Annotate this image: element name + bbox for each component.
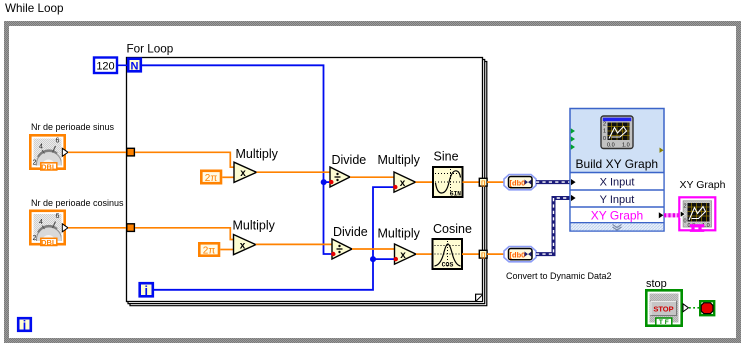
svg-text:Y Input: Y Input (600, 194, 635, 206)
knob control Nr de perioade sinus (DBL) (30, 135, 68, 176)
wire XY graph (magenta) (664, 213, 679, 217)
wire knob sinus to tunnel (orange) (68, 151, 126, 153)
coercion dot Divide1 (329, 180, 333, 184)
loop condition terminal (stop sign) (700, 301, 714, 315)
svg-text:Multiply: Multiply (236, 147, 279, 161)
svg-text:STOP: STOP (653, 304, 673, 313)
label Divide 1 (332, 153, 367, 167)
label Cosine (433, 222, 472, 236)
label Multiply 3 (378, 153, 421, 167)
svg-text:Nr de perioade sinus: Nr de perioade sinus (31, 122, 115, 132)
wire tunnel to converter 1 (orange) (487, 181, 505, 183)
wire iteration i (blue) (154, 187, 394, 290)
svg-text:120: 120 (96, 61, 114, 73)
stop boolean control (646, 290, 688, 326)
svg-text:XY Graph: XY Graph (591, 209, 643, 223)
label Nr de perioade cosinus (31, 198, 124, 208)
label stop (646, 278, 667, 290)
constant 2pi 1 (201, 171, 221, 184)
junction node on i wire (370, 256, 376, 262)
svg-text:2: 2 (684, 204, 687, 210)
svg-text:2: 2 (33, 160, 37, 167)
svg-text:stop: stop (646, 278, 667, 290)
for loop iteration terminal i (140, 283, 153, 298)
multiply function 3 (394, 172, 416, 192)
svg-text:0: 0 (684, 219, 687, 225)
wire Multiply2 to Divide2 (orange) (256, 243, 332, 245)
wire tunnel to Multiply 2 (orange, jog down) (135, 228, 234, 240)
svg-text:Cosine: Cosine (433, 222, 472, 236)
wire Multiply3 to Sine (orange) (416, 181, 433, 183)
svg-text:x: x (400, 250, 406, 261)
svg-text:x: x (240, 168, 246, 179)
knob control Nr de perioade cosinus (DBL) (30, 211, 68, 252)
junction node on N wire (321, 179, 327, 185)
svg-text:X Input: X Input (600, 177, 635, 189)
convert to dynamic data 2 (504, 247, 536, 262)
svg-text:x: x (240, 241, 246, 252)
label Multiply 1 (236, 147, 279, 161)
wire N count (blue) (142, 65, 332, 254)
svg-text:2: 2 (33, 235, 37, 242)
svg-text:6: 6 (56, 138, 60, 145)
coercion dot Multiply4 (394, 257, 398, 261)
svg-text:N: N (131, 60, 139, 72)
for loop dog-ear corner (476, 294, 483, 301)
wire Multiply4 to Cosine (orange) (416, 253, 432, 255)
build XY graph icon (601, 116, 633, 149)
svg-text:0.0: 0.0 (607, 143, 615, 149)
XY graph indicator (679, 197, 715, 232)
for loop border (127, 58, 487, 306)
coercion dot Multiply3 (393, 185, 397, 189)
svg-text:4: 4 (39, 144, 43, 151)
wire 2pi to Multiply 2 (orange) (220, 249, 233, 251)
svg-text:XY Graph: XY Graph (680, 179, 726, 191)
wire 2pi to Multiply 1 (orange) (222, 176, 234, 178)
svg-text:COS: COS (442, 262, 454, 269)
svg-text:4: 4 (39, 219, 43, 226)
svg-text:Divide: Divide (332, 153, 367, 167)
svg-text:[db0: [db0 (510, 251, 526, 260)
svg-text:[]: [] (481, 180, 485, 187)
svg-text:1: 1 (603, 129, 606, 135)
wire knob cosinus to tunnel (orange) (68, 227, 126, 229)
svg-text:x: x (400, 178, 406, 189)
constant 2pi 2 (199, 243, 219, 256)
wire Multiply1 to Divide1 (orange) (257, 171, 331, 173)
svg-text:2π: 2π (205, 173, 218, 184)
for loop label (127, 43, 174, 56)
multiply function 2 (234, 235, 256, 255)
convert to dynamic data 1 (504, 175, 536, 190)
svg-text:Multiply: Multiply (378, 153, 421, 167)
svg-text:DBL: DBL (41, 162, 57, 171)
label Nr de perioade sinus (31, 122, 115, 132)
svg-text:2π: 2π (203, 246, 216, 257)
constant 120 (94, 58, 117, 74)
tunnel output sine (auto-indexing) (479, 178, 487, 187)
sine express VI icon (433, 167, 463, 198)
wire Cosine to tunnel (orange) (462, 253, 480, 255)
tunnel input cosinus (127, 224, 135, 232)
svg-text:2: 2 (603, 122, 606, 128)
wire Sine to tunnel (orange) (463, 181, 481, 183)
svg-text:While Loop: While Loop (5, 2, 64, 15)
label Multiply 4 (378, 227, 421, 241)
tunnel output cosine (auto-indexing) (479, 250, 487, 259)
wire Divide1 to Multiply3 (orange) (350, 176, 394, 178)
divide function 1 (330, 167, 350, 187)
wire tunnel to Multiply (orange, jog down) (135, 152, 234, 167)
wire dynamic data 2 (navy hatched) (536, 198, 570, 254)
coercion dot Divide2 (331, 252, 335, 256)
svg-text:For Loop: For Loop (127, 43, 174, 56)
svg-text:Divide: Divide (333, 225, 368, 239)
divide function 2 (332, 239, 352, 259)
svg-text:Nr de perioade cosinus: Nr de perioade cosinus (31, 198, 124, 208)
cosine express VI icon (433, 239, 463, 269)
svg-text:Multiply: Multiply (378, 227, 421, 241)
svg-text:[db0: [db0 (510, 179, 526, 188)
svg-text:T F: T F (659, 319, 669, 326)
svg-text:DBL: DBL (41, 238, 57, 247)
multiply function 4 (395, 244, 417, 264)
N count terminal (128, 59, 141, 73)
wire Divide2 to Multiply4 (orange) (352, 248, 395, 250)
while loop label (5, 2, 64, 15)
svg-text:SIN: SIN (450, 191, 461, 198)
svg-text:Convert to Dynamic Data2: Convert to Dynamic Data2 (506, 271, 612, 281)
svg-text:i: i (145, 284, 148, 298)
svg-text:6: 6 (56, 213, 60, 220)
svg-text:[]: [] (481, 252, 485, 259)
wire stop to condition terminal (green dotted) (689, 307, 699, 309)
label XY Graph (680, 179, 726, 191)
svg-text:i: i (23, 318, 26, 332)
label Sine (434, 150, 459, 164)
while loop iteration terminal i (18, 318, 31, 332)
express VI Build XY Graph (570, 109, 664, 232)
wire dynamic data 1 (navy hatched) (536, 180, 570, 184)
label Multiply 2 (233, 219, 276, 233)
multiply function 1 (234, 162, 257, 182)
svg-text:0: 0 (603, 136, 606, 142)
label Convert to Dynamic Data2 (506, 271, 612, 281)
svg-text:1.0: 1.0 (622, 143, 630, 149)
svg-text:Multiply: Multiply (233, 219, 276, 233)
svg-text:Sine: Sine (434, 150, 459, 164)
tunnel input sinus (127, 148, 135, 156)
wire 120 to N (118, 64, 127, 66)
label Divide 2 (333, 225, 368, 239)
svg-text:Build XY Graph: Build XY Graph (576, 157, 659, 171)
wire tunnel to converter 2 (orange) (487, 253, 505, 255)
